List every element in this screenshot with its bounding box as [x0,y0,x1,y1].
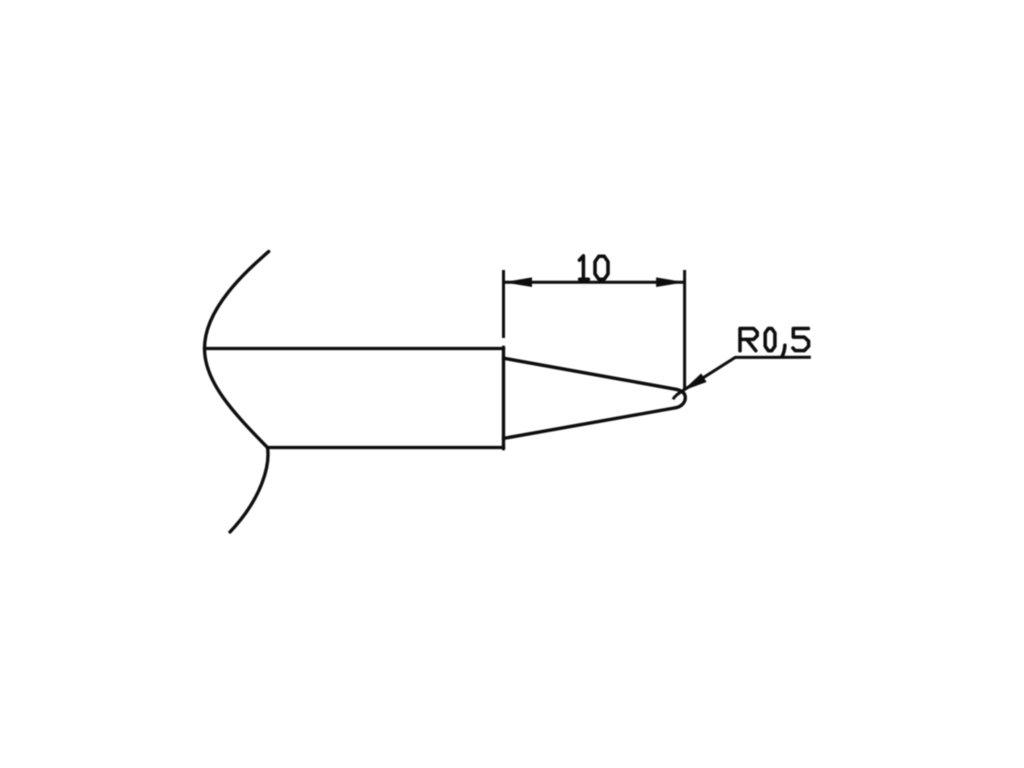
wire leader line [673,357,811,399]
node right dimension arrow [656,277,685,287]
wire left extension line [502,270,505,338]
value label 10 digit 0 [595,256,608,279]
value label R0,5 letter R [740,329,757,351]
wire taper upper line [504,358,677,389]
wire body right edge [502,347,505,449]
wire right extension line [683,270,686,391]
wire tip cap radius [675,389,685,408]
value label R0,5 digit 0 [765,329,775,351]
wire break curve [205,252,269,533]
value label R0,5 comma [782,345,785,357]
wire taper lower line [504,408,676,439]
wire body top line [205,347,504,350]
wire dimension line [504,281,685,284]
value label R0,5 digit 5 [793,329,809,351]
node left dimension arrow [504,277,533,287]
node leader arrowhead [683,373,707,390]
value label 10 digit 1 [579,256,588,279]
wire body bottom line [268,446,504,449]
